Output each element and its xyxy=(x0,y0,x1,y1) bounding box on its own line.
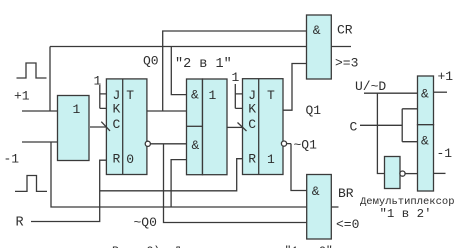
svg-text:-1: -1 xyxy=(4,152,20,167)
wire J/K tie of FF1 xyxy=(100,85,107,108)
svg-text:R: R xyxy=(113,152,121,167)
node inverter output bubble xyxy=(400,171,405,176)
svg-text:K: K xyxy=(113,102,121,117)
AND gate demux top (+1 output) xyxy=(418,76,434,125)
svg-text:-1: -1 xyxy=(437,146,453,161)
svg-text:&: & xyxy=(191,88,199,103)
wire ~Q1 net to BR gate xyxy=(287,144,307,191)
svg-text:C: C xyxy=(113,117,121,132)
svg-text:1: 1 xyxy=(94,74,102,89)
svg-text:+1: +1 xyxy=(438,69,454,84)
JK flip-flop FF1 (bit 0) xyxy=(106,79,146,175)
svg-text:K: K xyxy=(248,102,256,117)
wire +1 input to OR gate xyxy=(22,110,57,112)
svg-text:R: R xyxy=(248,152,256,167)
pulse symbol -1 xyxy=(15,176,47,192)
FF2 dynamic clock mark xyxy=(238,123,247,132)
svg-text:~Q0: ~Q0 xyxy=(134,215,157,230)
wire Q1 net to CR gate xyxy=(283,64,307,111)
FF1 dynamic clock mark xyxy=(101,122,110,131)
svg-text:T: T xyxy=(267,88,275,103)
svg-text:R: R xyxy=(16,216,24,231)
svg-text:1: 1 xyxy=(267,152,275,167)
svg-text:<=0: <=0 xyxy=(336,217,359,232)
svg-text:CR: CR xyxy=(337,23,353,38)
svg-text:BR: BR xyxy=(338,186,354,201)
wire U/~D input xyxy=(364,93,418,173)
svg-text:Q0: Q0 xyxy=(143,54,159,69)
svg-text:1: 1 xyxy=(73,102,81,117)
wire demux -1 output xyxy=(434,172,446,174)
svg-text:&: & xyxy=(313,23,321,38)
svg-text:~Q1: ~Q1 xyxy=(294,138,318,153)
wire -1 branch to mux AND2 xyxy=(171,160,186,207)
svg-text:>=3: >=3 xyxy=(335,56,358,71)
wire R net xyxy=(31,159,243,222)
inverter of demux select xyxy=(385,157,401,189)
wire J/K tie of FF2 xyxy=(235,84,242,108)
svg-text:1: 1 xyxy=(209,88,217,103)
wire -1 input to OR gate xyxy=(22,141,57,143)
AND gate CR (carry) xyxy=(307,15,332,79)
svg-text:C: C xyxy=(350,120,358,135)
wire mux output to FF2 clock xyxy=(227,126,243,128)
svg-text:"2 в 1": "2 в 1" xyxy=(175,57,232,72)
wire OR1 output to FF1 clock xyxy=(90,126,106,128)
wire C clock input of demux xyxy=(360,109,418,142)
wire +1 feedback net to CR gate xyxy=(50,47,307,112)
mux 2-in-1 AND column xyxy=(187,79,203,175)
svg-text:&: & xyxy=(421,134,429,149)
wire inverter output to demux AND2 xyxy=(405,173,417,175)
wire -1 feedback net to BR gate xyxy=(51,142,307,207)
OR gate 1 (clock OR) xyxy=(58,96,90,161)
wire BR output xyxy=(331,206,339,208)
AND gate BR (borrow) xyxy=(307,175,332,240)
wire demux +1 output xyxy=(434,91,448,93)
svg-text:&: & xyxy=(312,184,320,199)
node ~Q0 output bubble of FF1 xyxy=(145,141,150,146)
svg-text:0: 0 xyxy=(126,152,134,167)
JK flip-flop FF2 (bit 1) xyxy=(243,79,284,175)
node ~Q1 output bubble of FF2 xyxy=(281,141,286,146)
AND gate demux bottom (-1 output) xyxy=(418,125,434,191)
svg-text:+1: +1 xyxy=(14,89,30,104)
wire CR output xyxy=(331,46,351,48)
wire +1 branch to mux AND1 xyxy=(171,47,186,95)
svg-text:C: C xyxy=(248,117,256,132)
wire Q0 net xyxy=(147,31,307,111)
svg-text:&: & xyxy=(192,138,200,153)
svg-text:"1 в 2': "1 в 2' xyxy=(380,207,432,221)
svg-text:&: & xyxy=(421,86,429,101)
svg-text:T: T xyxy=(126,88,134,103)
svg-text:1: 1 xyxy=(232,70,240,85)
pulse symbol +1 xyxy=(17,63,47,78)
svg-text:Q1: Q1 xyxy=(306,103,322,118)
mux 2-in-1 OR column xyxy=(203,79,228,175)
wire ~Q0 net xyxy=(150,144,306,223)
svg-text:U/~D: U/~D xyxy=(355,79,386,94)
